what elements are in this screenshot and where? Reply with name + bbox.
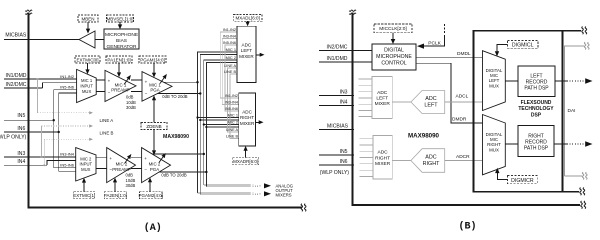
- svg-text:IN5: IN5: [340, 149, 348, 155]
- gain arrow pga2: [159, 154, 166, 163]
- svg-text:IN5-IN6: IN5-IN6: [60, 162, 75, 167]
- wire DMDL: [416, 57, 483, 59]
- control EXTMIC[0]: [75, 56, 100, 63]
- svg-text:RIGHT: RIGHT: [423, 161, 440, 167]
- control PA1EN[1:0]: [106, 56, 132, 63]
- arrow right mixer out: [256, 121, 260, 123]
- svg-text:10dB: 10dB: [126, 100, 136, 105]
- adc ADC RIGHT: [411, 149, 445, 173]
- pin IN4 (B): [319, 105, 354, 107]
- svg-text:MIC 1: MIC 1: [226, 47, 236, 52]
- svg-text:MICBIAS: MICBIAS: [327, 124, 349, 130]
- svg-text:MIXERS: MIXERS: [276, 192, 292, 197]
- svg-text:0dB: 0dB: [126, 95, 134, 100]
- node IN6 junction: [58, 131, 60, 133]
- wire right mixer mic1 pair: [198, 117, 239, 119]
- svg-text:PATH DSP: PATH DSP: [524, 146, 549, 152]
- svg-text:MUX: MUX: [81, 167, 91, 172]
- wire mic1 out bottom: [158, 93, 201, 95]
- svg-text:IN1/DMD: IN1/DMD: [327, 56, 348, 62]
- svg-text:−: −: [108, 90, 111, 95]
- svg-text:MIC 2: MIC 2: [228, 120, 238, 125]
- svg-text:30dB: 30dB: [126, 105, 136, 110]
- pin IN1/DMD: [4, 78, 77, 80]
- control DIGMICR: [508, 176, 538, 184]
- svg-text:MICBIAS: MICBIAS: [5, 33, 27, 39]
- box RIGHT RECORD PATH DSP: [518, 126, 554, 157]
- gain arrow preamp2: [125, 155, 132, 164]
- wire analog out pair mic1 dashed: [250, 192, 262, 195]
- wire zdenb down arrow to pga2: [153, 130, 155, 152]
- bus vertical v2 mic1-: [200, 55, 237, 195]
- amp MIC1 PGA: [142, 72, 172, 102]
- mux MIC2 INPUT MUX: [76, 148, 96, 181]
- svg-text:EXTMIC[1]: EXTMIC[1]: [73, 193, 95, 198]
- mux MIC1 INPUT MUX: [77, 69, 97, 102]
- svg-text:PGA: PGA: [150, 167, 159, 172]
- box FLEXSOUND outline: [473, 31, 581, 192]
- wire IN5-IN6 vertical: [54, 90, 76, 168]
- wire left mux to record dsp: [505, 80, 518, 82]
- pin IN1/DMD (B): [319, 61, 372, 63]
- svg-text:LINE B: LINE B: [224, 70, 236, 74]
- svg-text:IN2/DMC: IN2/DMC: [327, 44, 348, 50]
- wire mux1 to preamp1: [96, 79, 105, 81]
- gain arrow preamp1: [124, 76, 131, 85]
- svg-text:IN3: IN3: [17, 151, 25, 157]
- svg-text:GENERATOR: GENERATOR: [107, 44, 137, 50]
- svg-text:PATH DSP: PATH DSP: [524, 85, 549, 91]
- svg-text:+: +: [109, 156, 112, 161]
- svg-text:IN1-IN2: IN1-IN2: [60, 74, 75, 79]
- svg-text:ADC: ADC: [378, 150, 389, 156]
- control MBVSEL[1:0]: [107, 15, 134, 22]
- svg-text:MICROPHONE: MICROPHONE: [376, 54, 412, 60]
- svg-text:ADC: ADC: [377, 90, 388, 96]
- svg-text:IN3: IN3: [340, 89, 348, 95]
- control MXADL[6:0]: [233, 14, 262, 21]
- svg-text:DIGITAL: DIGITAL: [384, 48, 404, 54]
- svg-text:DAI: DAI: [568, 108, 576, 114]
- svg-text:ADCR: ADCR: [456, 154, 470, 160]
- buffer micbias: [79, 31, 95, 48]
- svg-text:+: +: [144, 156, 147, 161]
- svg-text:IN1-IN2: IN1-IN2: [223, 28, 236, 32]
- wire mixer to adc right: [392, 160, 411, 162]
- svg-text:EXTMIC[0]: EXTMIC[0]: [76, 57, 98, 62]
- wire PCLK: [444, 24, 446, 37]
- bus vertical v3 mic2+: [204, 60, 237, 185]
- bus vertical v1 mic1+: [198, 52, 237, 193]
- svg-text:PGA: PGA: [150, 88, 159, 93]
- box ADC LEFT MIXER (B): [372, 77, 392, 119]
- svg-text:ADC: ADC: [242, 110, 252, 115]
- svg-text:LINE A: LINE A: [226, 128, 238, 132]
- svg-text:MAX98090: MAX98090: [163, 134, 189, 140]
- mux DIGITAL MIC LEFT MUX: [483, 51, 506, 111]
- svg-text:BIAS: BIAS: [116, 38, 127, 44]
- svg-text:IN2/DMC: IN2/DMC: [6, 82, 27, 88]
- control PGAM2[4:0]: [140, 192, 163, 199]
- control MICCLK[2:0]: [374, 24, 412, 33]
- svg-text:0dB TO 20dB: 0dB TO 20dB: [161, 173, 186, 178]
- control PA2EN[1:0]: [104, 192, 127, 199]
- control PGAM1[4:0]: [139, 56, 166, 63]
- node junction dots: [196, 81, 198, 83]
- svg-text:IN1/DMD: IN1/DMD: [6, 73, 27, 79]
- break at top of bus (A): [25, 10, 32, 14]
- svg-text:MXADR[6:0]: MXADR[6:0]: [233, 159, 258, 164]
- box ADC LEFT MIXER (A): [237, 26, 256, 82]
- svg-text:(A): (A): [144, 222, 162, 234]
- svg-text:MBEN: MBEN: [81, 16, 94, 21]
- svg-text:IN3-IN4: IN3-IN4: [225, 101, 238, 105]
- amp MIC1 PREAMP: [105, 70, 136, 101]
- stubs right mixer (B): [360, 139, 373, 177]
- svg-text:IN6: IN6: [17, 126, 25, 132]
- svg-text:ADC: ADC: [425, 155, 436, 161]
- wire mic2 out bottom: [159, 171, 206, 173]
- svg-text:PGAM1[4:0]: PGAM1[4:0]: [140, 57, 165, 62]
- svg-text:MIXER: MIXER: [375, 161, 391, 167]
- svg-text:(WLP ONLY): (WLP ONLY): [0, 134, 27, 140]
- pin MICBIAS (B): [319, 129, 354, 131]
- wire right mux to record dsp: [505, 143, 518, 145]
- gray line A stub: [38, 112, 90, 114]
- pin IN3: [4, 156, 76, 158]
- pin IN2/DMC: [4, 87, 42, 89]
- svg-text:0dB: 0dB: [126, 173, 134, 178]
- svg-text:IN5-IN6: IN5-IN6: [60, 85, 75, 90]
- svg-text:MAX98090: MAX98090: [408, 132, 440, 139]
- arrow left mixer out: [256, 54, 260, 56]
- wire IN4 jog to mux2: [47, 161, 76, 166]
- stubs left mixer (B): [359, 79, 373, 117]
- control MBEN: [78, 15, 98, 22]
- svg-text:MUX: MUX: [489, 83, 499, 88]
- bus vertical v4 mic2-: [206, 63, 236, 187]
- box ADC RIGHT MIXER (B): [373, 136, 392, 180]
- wire gen to buffer: [95, 39, 104, 41]
- gray DAI bracket top: [565, 46, 585, 176]
- wire mixer to adc left: [392, 101, 411, 103]
- pin IN6 (WLP ONLY): [4, 131, 59, 133]
- svg-text:MIC 1: MIC 1: [228, 113, 238, 118]
- svg-text:MBVSEL[1:0]: MBVSEL[1:0]: [106, 16, 133, 21]
- wire right mixer mic2 pair: [204, 124, 239, 126]
- pin IN5 (B): [319, 154, 354, 156]
- svg-text:IN6: IN6: [340, 159, 348, 165]
- break top edge flexsound: [582, 27, 587, 35]
- svg-text:MICCLK[2:0]: MICCLK[2:0]: [379, 26, 406, 32]
- svg-text:MIC 2: MIC 2: [80, 156, 92, 161]
- svg-text:0dB TO 20dB: 0dB TO 20dB: [162, 94, 187, 99]
- wire ADCL: [445, 101, 483, 103]
- gray line mid stub: [42, 125, 90, 127]
- box DIGITAL MICROPHONE CONTROL: [372, 44, 416, 70]
- gain arrow pga1: [160, 75, 167, 84]
- wire IN6 vertical: [59, 93, 76, 171]
- svg-text:MICROPHONE: MICROPHONE: [105, 32, 138, 38]
- chip edge bus (A): [29, 13, 303, 208]
- svg-text:LINE A: LINE A: [224, 64, 236, 68]
- svg-text:IN3-IN4: IN3-IN4: [60, 151, 75, 156]
- svg-text:PA2EN[1:0]: PA2EN[1:0]: [104, 193, 127, 198]
- box microphone bias generator: [104, 29, 139, 49]
- wire mux2 to preamp2: [96, 156, 107, 158]
- svg-text:ZDENB: ZDENB: [146, 124, 161, 129]
- wire preamp2 to pga2: [131, 156, 142, 158]
- svg-text:LEFT: LEFT: [241, 48, 252, 53]
- svg-text:MIC 1: MIC 1: [81, 78, 93, 83]
- svg-text:PGAM2[4:0]: PGAM2[4:0]: [138, 193, 163, 198]
- svg-text:LEFT: LEFT: [376, 96, 388, 102]
- svg-text:MUX: MUX: [489, 147, 499, 152]
- svg-text:ADCL: ADCL: [456, 94, 469, 100]
- control ZDENB: [141, 123, 167, 130]
- gray line B stub: [44, 138, 89, 140]
- svg-text:RECORD: RECORD: [525, 140, 547, 146]
- break at top of bus (B): [349, 10, 356, 14]
- svg-text:INPUT: INPUT: [80, 84, 93, 89]
- svg-text:DIGMICR: DIGMICR: [511, 178, 534, 184]
- svg-text:DIGMICL: DIGMICL: [512, 43, 534, 49]
- svg-text:MIXER: MIXER: [240, 121, 255, 126]
- svg-text:RIGHT: RIGHT: [240, 115, 254, 120]
- svg-text:IN5-IN6: IN5-IN6: [225, 107, 238, 111]
- box LEFT RECORD PATH DSP: [518, 66, 555, 97]
- svg-text:MUX: MUX: [82, 89, 92, 94]
- svg-text:(WLP ONLY): (WLP ONLY): [320, 170, 350, 176]
- svg-text:MIXER: MIXER: [239, 54, 254, 59]
- svg-text:(B): (B): [458, 220, 476, 232]
- amp MIC2 PGA: [142, 148, 171, 183]
- node IN5 junction: [53, 119, 55, 121]
- svg-text:CONTROL: CONTROL: [381, 60, 406, 66]
- box ADC RIGHT MIXER (A): [239, 93, 256, 146]
- control MXADR[6:0]: [233, 158, 259, 165]
- svg-text:INPUT: INPUT: [80, 162, 93, 167]
- break at end of bottom edge (A): [301, 204, 306, 212]
- svg-text:RIGHT: RIGHT: [375, 155, 390, 161]
- control EXTMIC[1]: [74, 192, 95, 199]
- svg-text:LINE A: LINE A: [100, 118, 114, 123]
- svg-text:PREAMP: PREAMP: [111, 88, 130, 93]
- svg-text:MIXER: MIXER: [375, 101, 391, 107]
- svg-text:PCLK: PCLK: [428, 41, 441, 47]
- pin IN4: [4, 164, 47, 166]
- svg-text:MIC 2: MIC 2: [226, 55, 236, 60]
- svg-text:ADC: ADC: [425, 96, 436, 102]
- svg-text:FLEXSOUND: FLEXSOUND: [521, 100, 552, 106]
- svg-text:TECHNOLOGY: TECHNOLOGY: [518, 106, 554, 112]
- svg-text:IN1-IN2: IN1-IN2: [225, 94, 238, 98]
- divider DAI line: [562, 31, 564, 192]
- svg-text:MXADL[6:0]: MXADL[6:0]: [235, 16, 259, 21]
- svg-text:IN5: IN5: [17, 113, 25, 119]
- svg-text:−: −: [144, 167, 147, 172]
- mux DIGITAL MIC RIGHT MUX: [483, 115, 506, 175]
- gray spare vertical: [37, 79, 39, 113]
- svg-text:IN3-IN4: IN3-IN4: [223, 35, 236, 39]
- pin IN2/DMC (B): [319, 49, 372, 51]
- gray bus feeds to mixers: [220, 32, 239, 98]
- gray DAI bracket bottom: [565, 175, 583, 177]
- wire DMDR: [416, 63, 483, 123]
- svg-text:ADC: ADC: [242, 43, 252, 48]
- chip edge bus (B): [352, 13, 580, 205]
- wire mic1 out top: [164, 81, 198, 83]
- pin MICBIAS: [4, 39, 79, 41]
- wire preamp1 to pga1: [131, 79, 142, 81]
- wire zdenb up arrow to pga1: [153, 99, 155, 123]
- pin IN6 (B): [319, 164, 354, 166]
- svg-text:LINE B: LINE B: [226, 135, 238, 139]
- svg-text:DSP: DSP: [531, 112, 542, 118]
- pin IN3 (B): [319, 94, 354, 96]
- svg-text:+: +: [108, 79, 111, 84]
- break bottom edge flexsound: [580, 188, 585, 196]
- wire analog out pair mic2 dashed: [250, 184, 262, 187]
- break at end of bottom edge (B): [581, 201, 586, 209]
- wire mic2 out top: [152, 153, 204, 155]
- arrow left record out: [555, 80, 567, 82]
- amp MIC2 PREAMP: [107, 148, 136, 183]
- wire ADCR: [445, 160, 483, 162]
- adc ADC LEFT: [411, 91, 445, 114]
- svg-text:IN5-IN6: IN5-IN6: [223, 41, 236, 45]
- svg-text:IN4: IN4: [340, 100, 348, 106]
- svg-text:LINE B: LINE B: [100, 130, 114, 135]
- control DIGMICL: [508, 41, 538, 49]
- svg-text:10dB: 10dB: [126, 178, 136, 183]
- svg-text:IN4: IN4: [17, 159, 25, 165]
- svg-text:+: +: [145, 79, 148, 84]
- svg-text:DMDR: DMDR: [452, 117, 467, 123]
- svg-text:30dB: 30dB: [126, 183, 136, 188]
- svg-text:LEFT: LEFT: [424, 103, 438, 109]
- svg-text:−: −: [145, 91, 148, 96]
- svg-text:PREAMP: PREAMP: [112, 167, 131, 172]
- svg-text:PA1EN[1:0]: PA1EN[1:0]: [107, 57, 130, 62]
- arrow right record out: [554, 143, 567, 145]
- svg-text:DMDL: DMDL: [457, 51, 471, 57]
- wire IN2 jog to mux: [42, 83, 76, 88]
- pin IN5: [4, 119, 54, 121]
